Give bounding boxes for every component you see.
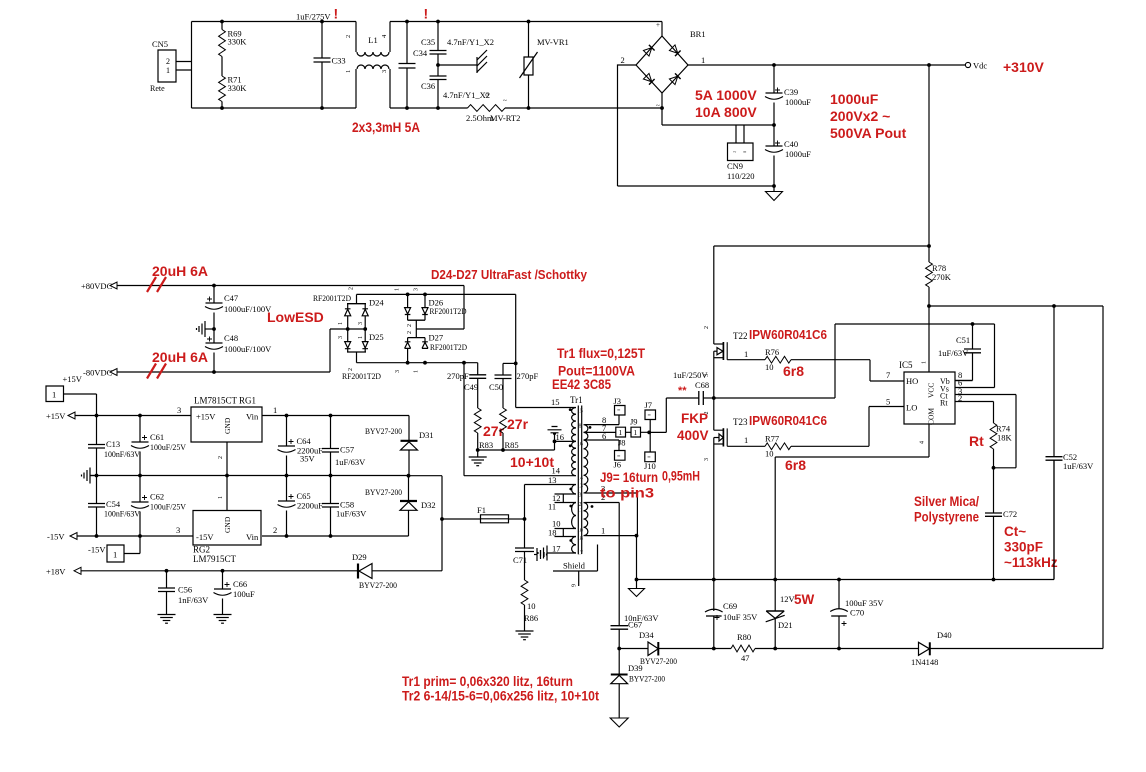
svg-text:Rt: Rt xyxy=(940,398,948,407)
svg-text:27r: 27r xyxy=(507,416,529,432)
label Tr2 winding xyxy=(402,689,599,704)
svg-text:1000uF: 1000uF xyxy=(785,97,811,107)
wire midpoint to Vs riser xyxy=(714,324,835,398)
svg-text:16: 16 xyxy=(556,432,565,442)
svg-text:C47: C47 xyxy=(224,293,238,303)
inductor L1 xyxy=(345,22,390,109)
jumper J7 xyxy=(645,400,656,432)
diode D26 xyxy=(395,288,444,338)
svg-text:1uF/63V: 1uF/63V xyxy=(1063,461,1094,471)
terminal +80VDC xyxy=(81,281,117,291)
svg-text:5A 1000V: 5A 1000V xyxy=(695,87,757,103)
ground below C40 xyxy=(766,186,783,201)
svg-text:C69: C69 xyxy=(723,601,737,611)
svg-text:RG1: RG1 xyxy=(239,396,256,406)
svg-text:3: 3 xyxy=(177,405,181,415)
node C13 top xyxy=(95,414,99,418)
svg-text:2: 2 xyxy=(407,331,413,334)
transformer core xyxy=(578,406,581,555)
svg-text:10: 10 xyxy=(527,601,536,611)
svg-text:C61: C61 xyxy=(150,432,164,442)
svg-text:100uF/25V: 100uF/25V xyxy=(150,502,187,512)
svg-text:1: 1 xyxy=(345,70,352,73)
label LowESD xyxy=(267,309,324,325)
node supply rail D21 xyxy=(773,647,777,651)
ic IC5 xyxy=(886,360,962,444)
svg-text:C40: C40 xyxy=(784,139,798,149)
node R74 bottom xyxy=(992,466,996,470)
node C64 top xyxy=(285,414,289,418)
svg-text:1000uF/100V: 1000uF/100V xyxy=(224,304,272,314)
label Ct value xyxy=(1004,524,1026,539)
label pin 15 xyxy=(551,397,560,407)
svg-text:D21: D21 xyxy=(778,620,793,630)
label +310V xyxy=(1003,59,1045,75)
wire supply rail b xyxy=(775,648,839,650)
svg-text:10A 800V: 10A 800V xyxy=(695,104,757,120)
capacitor C68 xyxy=(699,391,714,405)
svg-text:HO: HO xyxy=(906,376,918,386)
terminal -80VDC xyxy=(83,368,117,378)
svg-text:-15V: -15V xyxy=(196,532,214,542)
transformer secondary winding 13-12 xyxy=(572,485,576,495)
node pin16 xyxy=(553,440,557,444)
svg-text:BYV27-200: BYV27-200 xyxy=(640,656,677,666)
svg-text:RG2: RG2 xyxy=(193,545,210,555)
ground at pin 16 xyxy=(548,427,562,442)
label bulk caps xyxy=(830,91,879,107)
node C34 bottom xyxy=(405,106,409,110)
svg-text:RF2001T2D: RF2001T2D xyxy=(313,293,351,303)
svg-text:LM7915CT: LM7915CT xyxy=(193,554,237,564)
label core pin 16 xyxy=(577,442,583,448)
earth ground R83 xyxy=(469,450,487,466)
diode D24 xyxy=(338,287,384,329)
diode D34 xyxy=(619,630,714,666)
jumper J8 xyxy=(614,438,626,470)
svg-text:R86: R86 xyxy=(524,613,538,623)
svg-text:18: 18 xyxy=(577,536,583,542)
svg-text:R77: R77 xyxy=(765,434,779,444)
svg-text:~113kHz: ~113kHz xyxy=(1004,555,1058,570)
svg-text:BR1: BR1 xyxy=(690,29,706,39)
svg-text:2: 2 xyxy=(348,368,354,371)
label core pin 2 xyxy=(579,502,582,508)
wire Vb pin xyxy=(955,380,973,382)
svg-text:2x3,3mH 5A: 2x3,3mH 5A xyxy=(352,119,420,135)
capacitor C71 xyxy=(513,519,534,565)
svg-text:1: 1 xyxy=(634,428,638,437)
wire negative rail bottom xyxy=(618,185,775,187)
chassis ground C47 C48 xyxy=(197,321,215,337)
terminal +18V xyxy=(46,567,81,577)
svg-text:J7: J7 xyxy=(645,400,653,410)
label Tr1 flux xyxy=(557,346,646,361)
label T23 type xyxy=(749,413,827,428)
svg-text:1: 1 xyxy=(358,336,364,339)
capacitor C34 xyxy=(399,22,428,109)
node supply rail C69 xyxy=(712,647,716,651)
node D27 leg2 bottom xyxy=(423,361,427,365)
svg-text:330K: 330K xyxy=(228,83,248,93)
svg-text:1: 1 xyxy=(338,322,344,325)
jumper J9 pads xyxy=(616,417,649,438)
svg-text:C13: C13 xyxy=(106,439,120,449)
node C51 top xyxy=(971,322,975,326)
wire AC top rail right xyxy=(390,21,662,23)
svg-text:1: 1 xyxy=(273,405,277,415)
capacitor C66 xyxy=(214,571,256,615)
svg-text:BYV27-200: BYV27-200 xyxy=(359,580,397,590)
node R78 top xyxy=(927,244,931,248)
label Tr1 prim xyxy=(402,674,573,689)
svg-text:1uF/63V: 1uF/63V xyxy=(335,457,366,467)
wire VCC feed right xyxy=(1102,306,1104,649)
svg-text:400V: 400V xyxy=(677,428,709,443)
svg-text:20uH 6A: 20uH 6A xyxy=(152,263,208,279)
wire AC top rail left xyxy=(192,21,357,23)
svg-text:-15V: -15V xyxy=(47,532,65,542)
wire pin14 riser xyxy=(464,363,576,476)
resistor R80 xyxy=(714,632,775,663)
port box 1 bottom xyxy=(107,536,140,562)
svg-text:5: 5 xyxy=(886,397,890,407)
svg-text:+310V: +310V xyxy=(1003,59,1045,75)
node R71 bottom xyxy=(220,106,224,110)
label pin 2 xyxy=(601,492,605,502)
svg-text:13: 13 xyxy=(577,484,583,490)
diode D27 xyxy=(395,331,443,373)
label input choke 1 xyxy=(152,263,208,279)
warning mark 2 xyxy=(424,6,429,22)
svg-text:IPW60R041C6: IPW60R041C6 xyxy=(749,327,827,342)
svg-text:BYV27-200: BYV27-200 xyxy=(365,426,402,436)
wire snubber return xyxy=(478,441,555,450)
svg-text:27r: 27r xyxy=(483,423,505,439)
label +15V top xyxy=(63,374,83,384)
svg-text:RF2001T2D: RF2001T2D xyxy=(430,342,467,352)
svg-text:1: 1 xyxy=(166,66,170,75)
svg-text:C34: C34 xyxy=(413,48,428,58)
svg-text:+15V: +15V xyxy=(46,411,66,421)
label 400V xyxy=(677,428,709,443)
capacitor C51 xyxy=(938,324,981,381)
label 10plus10t xyxy=(510,454,554,470)
svg-text:3: 3 xyxy=(414,288,420,291)
svg-text:FKP: FKP xyxy=(681,411,708,426)
svg-text:47: 47 xyxy=(741,653,750,663)
wire +80VDC rail xyxy=(117,286,464,330)
svg-text:F1: F1 xyxy=(477,505,486,515)
terminal Vdc xyxy=(965,61,987,71)
svg-text:16: 16 xyxy=(577,442,583,448)
connector CN9 xyxy=(727,125,755,181)
svg-text:5W: 5W xyxy=(794,592,815,607)
label silver mica xyxy=(914,494,979,509)
svg-text:C72: C72 xyxy=(1003,509,1017,519)
warning mark xyxy=(334,6,339,22)
node RG1 gnd xyxy=(225,474,229,478)
node D34 D39 junction xyxy=(617,647,621,651)
svg-text:Rete: Rete xyxy=(150,84,165,93)
svg-text:COM: COM xyxy=(927,408,936,425)
label core pin 11 xyxy=(577,508,583,514)
node C65 bottom xyxy=(285,534,289,538)
node C50 top on pin15 riser xyxy=(514,362,518,366)
diode D39 xyxy=(611,649,665,719)
svg-text:15: 15 xyxy=(577,409,583,415)
svg-text:1000uF/100V: 1000uF/100V xyxy=(224,344,272,354)
svg-text:L1: L1 xyxy=(368,35,377,45)
svg-text:1uF/63V: 1uF/63V xyxy=(336,509,367,519)
svg-text:2: 2 xyxy=(704,326,710,329)
svg-text:C66: C66 xyxy=(233,579,247,589)
svg-text:3: 3 xyxy=(395,370,401,373)
transformer secondary winding 11-10 xyxy=(572,503,576,529)
transformer shield xyxy=(553,545,598,588)
svg-text:Shield: Shield xyxy=(563,561,586,571)
svg-text:10: 10 xyxy=(765,449,774,459)
bridge diode top-right xyxy=(669,45,680,56)
svg-text:T22: T22 xyxy=(733,331,748,341)
node pin1 pin3 junction xyxy=(635,534,639,538)
wire -80VDC rail xyxy=(117,329,347,372)
svg-text:100nF/63V: 100nF/63V xyxy=(104,449,141,459)
svg-text:3: 3 xyxy=(704,374,710,377)
svg-text:R85: R85 xyxy=(505,440,519,450)
svg-text:1: 1 xyxy=(744,349,748,359)
svg-text:17: 17 xyxy=(577,551,583,557)
label bulk caps2 xyxy=(830,108,890,124)
bridge diode top-left xyxy=(643,45,654,56)
wire AC bottom rail left xyxy=(192,107,357,109)
svg-text:-15V: -15V xyxy=(88,545,106,555)
node D24 leg1 mid xyxy=(346,327,350,331)
svg-text:1nF/63V: 1nF/63V xyxy=(178,595,209,605)
svg-text:~: ~ xyxy=(656,102,660,110)
label 27r R83 xyxy=(483,423,505,439)
wire BR1 pin1 output xyxy=(688,64,965,66)
wire analog ground rail xyxy=(90,475,409,477)
regulator RG2 LM7915CT xyxy=(176,511,277,565)
node MV-VR1 top xyxy=(527,20,531,24)
label polystyrene xyxy=(914,510,979,525)
node C52 top xyxy=(1052,304,1056,308)
wire D31 junction to F1 riser xyxy=(409,476,443,519)
wire link 10-18 xyxy=(555,529,577,537)
svg-text:IC5: IC5 xyxy=(899,360,913,370)
transformer winding phase dot 13 xyxy=(569,488,572,491)
node C48 bottom xyxy=(212,370,216,374)
diode D31 xyxy=(365,416,434,476)
wire snubber lower xyxy=(357,362,478,364)
label core pin 14 xyxy=(577,476,583,482)
svg-text:0,95mH: 0,95mH xyxy=(662,469,700,484)
svg-text:1uF/63V: 1uF/63V xyxy=(938,348,969,358)
svg-text:6r8: 6r8 xyxy=(783,363,804,379)
svg-text:CN9: CN9 xyxy=(727,161,743,171)
svg-text:270K: 270K xyxy=(932,272,952,282)
svg-text:1000uF: 1000uF xyxy=(785,149,811,159)
capacitor C62 xyxy=(131,476,187,537)
node D27 leg1 bottom xyxy=(406,361,410,365)
node C33 bottom xyxy=(320,106,324,110)
svg-text:CN5: CN5 xyxy=(152,39,168,49)
svg-text:Tr1: Tr1 xyxy=(570,395,583,405)
svg-text:C57: C57 xyxy=(340,445,354,455)
label FKP xyxy=(681,411,708,426)
earth ground C66 xyxy=(214,615,232,624)
resistor R77 xyxy=(727,434,791,459)
diode D29 xyxy=(352,552,442,590)
svg-text:1uF/275V: 1uF/275V xyxy=(296,12,331,22)
label 27r R85 xyxy=(507,416,529,432)
capacitor C61 xyxy=(131,416,187,476)
diode D25 xyxy=(338,329,384,352)
svg-text:C48: C48 xyxy=(224,333,238,343)
svg-text:BYV27-200: BYV27-200 xyxy=(365,487,402,497)
svg-text:11: 11 xyxy=(577,508,583,514)
svg-text:C36: C36 xyxy=(421,81,435,91)
resistor R78 xyxy=(926,246,952,306)
svg-text:+: + xyxy=(656,21,660,29)
transistor T22 xyxy=(704,326,748,398)
wire pin17 to chassis xyxy=(547,552,576,554)
svg-text:~: ~ xyxy=(503,97,507,105)
node C40 bottom xyxy=(772,184,776,188)
svg-text:LowESD: LowESD xyxy=(267,309,324,325)
wire VCC to IC5 xyxy=(928,306,930,372)
jumper J10 xyxy=(644,432,656,471)
diode D40 xyxy=(839,630,1103,667)
svg-text:3: 3 xyxy=(381,70,388,73)
svg-text:10uF 35V: 10uF 35V xyxy=(723,612,758,622)
wire Ct pin xyxy=(955,395,1016,468)
label BR1 rating xyxy=(695,87,757,103)
node C61 top xyxy=(138,414,142,418)
transformer winding phase dot 11 xyxy=(569,505,572,508)
node C62 bottom xyxy=(138,534,142,538)
svg-text:C39: C39 xyxy=(784,87,798,97)
svg-text:2: 2 xyxy=(621,55,625,65)
capacitor C70 xyxy=(830,580,884,649)
svg-text:2: 2 xyxy=(349,287,355,290)
wire +18V riser xyxy=(441,519,443,571)
capacitor C69 xyxy=(705,580,758,649)
capacitor C56 xyxy=(158,571,209,615)
node Vdc branch xyxy=(927,63,931,67)
wire pin8 to J3 xyxy=(585,415,620,425)
wire pin6 to J8 xyxy=(585,440,620,451)
diode D32 xyxy=(365,476,436,536)
svg-text:Polystyrene: Polystyrene xyxy=(914,510,979,525)
svg-text:=: = xyxy=(647,456,651,462)
wire pin13 riser xyxy=(525,485,576,520)
svg-text:3: 3 xyxy=(704,458,710,461)
svg-text:**: ** xyxy=(678,385,687,397)
svg-text:C35: C35 xyxy=(421,37,435,47)
label Rt xyxy=(969,433,984,449)
label pin 16 xyxy=(556,432,565,442)
node pg D21 xyxy=(773,578,777,582)
svg-text:RF2001T2D: RF2001T2D xyxy=(430,306,467,316)
node C64 bottom xyxy=(285,474,289,478)
node primary ground rail left xyxy=(635,578,639,582)
node C39 C40 junction xyxy=(772,123,776,127)
transistor T23 xyxy=(704,398,748,580)
wire pin7 to J9 xyxy=(585,431,616,433)
capacitor C52 xyxy=(1046,306,1095,580)
fuse F1 xyxy=(442,505,525,523)
wire AC left vertical xyxy=(191,22,193,109)
varistor MV-VR1 xyxy=(520,22,569,109)
svg-text:C68: C68 xyxy=(695,380,709,390)
svg-text:+15V: +15V xyxy=(196,412,216,422)
svg-text:!: ! xyxy=(334,6,339,22)
capacitor C64 xyxy=(278,416,324,476)
svg-text:R76: R76 xyxy=(765,347,779,357)
svg-text:3: 3 xyxy=(579,493,582,499)
wire BR1 bottom to caps xyxy=(662,93,774,125)
resistor R74 xyxy=(990,423,1012,468)
label D21 power xyxy=(794,592,815,607)
node C61 bottom xyxy=(138,474,142,478)
svg-text:100uF 35V: 100uF 35V xyxy=(845,598,884,608)
node F1 right xyxy=(523,517,527,521)
capacitor C49 xyxy=(447,363,486,392)
svg-text:J8: J8 xyxy=(618,438,626,448)
node C35 top xyxy=(436,20,440,24)
svg-text:14: 14 xyxy=(577,476,583,482)
capacitor C36 xyxy=(421,65,490,108)
capacitor C54 xyxy=(88,476,141,537)
node pg C72 xyxy=(992,578,996,582)
svg-text:+15V: +15V xyxy=(63,374,83,384)
resistor R83 xyxy=(474,378,493,450)
label BR1 rating2 xyxy=(695,104,757,120)
bridge diode bottom-right xyxy=(669,73,680,84)
svg-text:1: 1 xyxy=(744,435,748,445)
label pin 17 xyxy=(552,544,561,554)
svg-text:1: 1 xyxy=(52,390,56,400)
transformer winding phase dot 18 xyxy=(569,539,572,542)
svg-text:GND: GND xyxy=(223,417,232,434)
svg-text:3: 3 xyxy=(338,336,344,339)
label C33 value xyxy=(296,12,331,22)
node pg T23 xyxy=(712,578,716,582)
bridge diode bottom-left xyxy=(643,73,654,84)
chassis ground pin17 xyxy=(538,546,547,561)
node C36 bottom xyxy=(436,106,440,110)
label pin 3 xyxy=(601,484,605,494)
svg-text:C62: C62 xyxy=(150,492,164,502)
label pin 10 xyxy=(552,519,561,529)
svg-text:LM7815CT: LM7815CT xyxy=(194,396,238,406)
wire pin1 to primary ground xyxy=(636,536,638,580)
svg-text:2: 2 xyxy=(407,324,413,327)
svg-text:Vdc: Vdc xyxy=(973,61,987,71)
zener diode D21 xyxy=(766,580,796,649)
label pin 7 xyxy=(602,423,606,433)
capacitor C39 xyxy=(765,65,811,125)
wire pin16 stub xyxy=(555,440,577,442)
svg-text:7: 7 xyxy=(886,370,890,380)
svg-text:4: 4 xyxy=(920,441,926,444)
svg-text:D31: D31 xyxy=(419,430,434,440)
wire primary ground rail xyxy=(637,460,1055,579)
svg-text:270pF: 270pF xyxy=(447,371,469,381)
wire pin15 riser xyxy=(516,294,576,407)
